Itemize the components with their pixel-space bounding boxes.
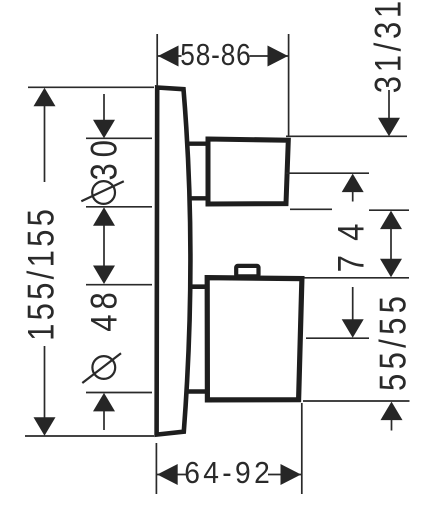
dim 64-92 left arrow xyxy=(157,464,178,485)
dim 64-92 dimension line xyxy=(156,474,301,476)
dim 58-86 dimension line xyxy=(157,55,288,57)
extension line, bottom of top knob (right part) xyxy=(369,209,409,211)
gap double arrow stem xyxy=(390,229,392,260)
extension line, bottom of bottom knob (right) xyxy=(303,400,410,402)
dim d48 lower leader xyxy=(103,411,105,430)
dim 155/155 top extension line xyxy=(28,86,154,88)
svg-text:55/55: 55/55 xyxy=(373,296,414,391)
dim 58-86 left arrow xyxy=(158,46,179,67)
dim 58-86 right extension line xyxy=(288,34,290,136)
dim 55/55 lower leader xyxy=(391,420,393,431)
svg-text:58-86: 58-86 xyxy=(180,38,251,72)
extension line, bottom of top knob (left part) xyxy=(290,208,332,210)
top knob stem (sleeve) xyxy=(187,144,207,199)
gap double arrow down head xyxy=(380,259,402,278)
dim 74 up arrow xyxy=(342,174,364,193)
dim 55/55 up arrow xyxy=(381,402,403,421)
dim 31/31 leader line xyxy=(388,90,390,119)
dim 58-86 right arrow xyxy=(268,46,289,67)
dim d48 down arrow xyxy=(93,266,115,285)
dim d30 up arrow xyxy=(93,207,115,226)
shared leader between d30 and d48 xyxy=(103,225,105,267)
dim 155/155 bottom extension line xyxy=(25,435,154,437)
dim d30 upper leader xyxy=(103,94,105,121)
bottom knob body xyxy=(207,278,302,400)
dim d48 bottom extension line xyxy=(86,392,152,394)
dim d48 up arrow xyxy=(93,393,115,412)
svg-text:31/31: 31/31 xyxy=(368,1,409,93)
extension line, bottom knob centerline (right) xyxy=(306,337,369,339)
bottom knob grip tab xyxy=(236,266,258,277)
extension line, top of bottom knob (right) xyxy=(304,277,409,279)
dim 74 lower leader xyxy=(352,287,354,320)
dim d48 diameter symbol xyxy=(82,353,121,383)
dim 74 down arrow xyxy=(342,319,364,338)
dim 64-92 right arrow xyxy=(281,464,302,485)
dim d30 bottom extension line xyxy=(86,206,152,208)
dim 155/155 bottom arrow xyxy=(34,417,56,436)
dim 31/31 down arrow xyxy=(378,118,400,137)
dim d30 diameter symbol xyxy=(81,181,124,204)
dim d30 down arrow xyxy=(93,120,115,139)
gap double arrow up head xyxy=(380,211,402,230)
dim d30 top extension line xyxy=(86,137,152,139)
dim 155/155 dimension line lower segment xyxy=(44,346,46,418)
dim 74 upper leader xyxy=(352,192,354,202)
dim 155/155 dimension line upper segment xyxy=(44,106,46,182)
extension line, top of top knob (right) xyxy=(286,135,407,137)
escutcheon plate (side view) xyxy=(157,88,191,435)
dim 64-92 left extension line xyxy=(155,443,157,494)
bottom knob stem (sleeve d48) xyxy=(186,287,207,392)
svg-text:64-92: 64-92 xyxy=(184,456,270,491)
dim 155/155 top arrow xyxy=(34,88,56,107)
dim d48 top extension line xyxy=(86,284,152,286)
extension line, top knob centerline (right) xyxy=(286,172,369,174)
dim 58-86 left extension line xyxy=(156,34,158,86)
top knob body xyxy=(208,139,288,204)
dim 64-92 right extension line xyxy=(301,403,303,494)
